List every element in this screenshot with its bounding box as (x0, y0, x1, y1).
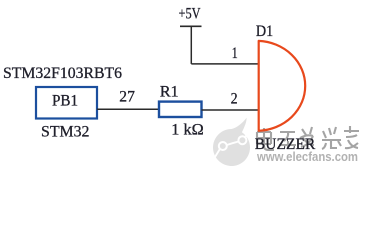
svg-text:BUZZER: BUZZER (255, 136, 316, 153)
svg-text:27: 27 (119, 86, 135, 105)
svg-text:1 kΩ: 1 kΩ (171, 120, 203, 139)
buzzer D1 (259, 41, 306, 131)
svg-text:R1: R1 (160, 82, 179, 101)
wire R1 to buzzer pin 2 (202, 109, 259, 111)
svg-text:+5V: +5V (179, 4, 201, 23)
svg-text:PB1: PB1 (52, 91, 78, 110)
svg-text:1: 1 (232, 43, 238, 62)
wire +5V vertical (190, 26, 192, 64)
svg-text:2: 2 (231, 88, 238, 107)
watermark chinese characters (258, 127, 360, 151)
svg-text:STM32: STM32 (41, 121, 90, 140)
svg-text:STM32F103RBT6: STM32F103RBT6 (3, 63, 122, 82)
resistor R1 (159, 102, 202, 117)
power +5V bar (180, 25, 202, 27)
wire PB1 to R1 (97, 108, 159, 110)
svg-text:D1: D1 (256, 21, 273, 40)
watermark logo bubble (213, 118, 250, 166)
wire to buzzer pin 1 (191, 63, 258, 65)
MCU port box PB1 (36, 87, 97, 119)
